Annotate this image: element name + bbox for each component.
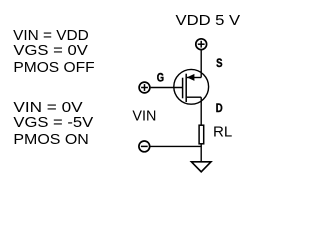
transistor Q1 PMOS body circle (174, 69, 209, 104)
svg-text:VIN: VIN (132, 107, 156, 124)
wire VDD terminal to source (200, 50, 202, 77)
wire drain to resistor (200, 97, 202, 125)
svg-text:D: D (216, 102, 223, 115)
resistor RL (199, 125, 204, 144)
svg-text:VDD 5 V: VDD 5 V (176, 12, 242, 29)
terminal - (VIN return) (139, 141, 150, 152)
svg-text:G: G (157, 71, 164, 84)
svg-text:PMOS ON: PMOS ON (13, 131, 88, 148)
transistor source lead with arrow (187, 77, 201, 79)
svg-text:RL: RL (213, 123, 232, 140)
svg-text:S: S (216, 57, 223, 70)
source arrowhead (187, 74, 195, 81)
wire minus terminal to ground node (150, 145, 201, 147)
transistor channel bar (185, 74, 187, 102)
transistor gate plate (182, 78, 184, 99)
wire gate terminal to gate (151, 87, 182, 89)
transistor drain lead (187, 96, 201, 98)
terminal + (VIN gate side) (139, 82, 150, 93)
terminal + (VDD supply) (196, 39, 207, 50)
ground (191, 162, 211, 172)
svg-text:VGS = 0V: VGS = 0V (13, 42, 88, 59)
svg-text:PMOS OFF: PMOS OFF (13, 59, 94, 76)
wire resistor to ground (200, 144, 202, 162)
svg-text:VGS = -5V: VGS = -5V (13, 114, 94, 131)
